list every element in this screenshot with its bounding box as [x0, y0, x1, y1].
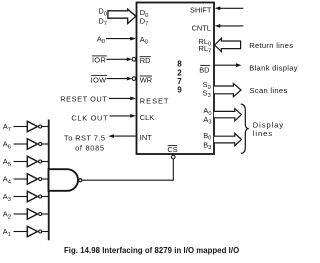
inverter A3: [27, 191, 37, 201]
svg-text:CLK OUT: CLK OUT: [71, 114, 108, 123]
svg-text:of 8085: of 8085: [75, 144, 105, 153]
wire A1: [14, 231, 28, 233]
svg-text:8: 8: [177, 59, 182, 68]
svg-text:A3: A3: [3, 192, 11, 203]
inverter A2: [27, 209, 37, 219]
wire BD output: [214, 64, 238, 66]
svg-text:CLK: CLK: [140, 113, 154, 122]
svg-text:CNTL: CNTL: [192, 23, 211, 32]
svg-text:Fig. 14.98 Interfacing of 8279: Fig. 14.98 Interfacing of 8279 in I/O ma…: [64, 246, 239, 255]
svg-text:D7: D7: [98, 17, 107, 28]
pin WR bubble: [132, 77, 136, 81]
wire INT out of U1: [111, 135, 136, 137]
display B bus arrow out of U1: [214, 133, 242, 145]
wire IOW to U1 WR: [107, 78, 129, 80]
wire A3: [14, 196, 28, 198]
svg-text:RD: RD: [140, 56, 151, 65]
svg-text:SHIFT: SHIFT: [190, 5, 212, 14]
wire IOR to U1 RD: [107, 58, 129, 60]
svg-text:WR: WR: [140, 76, 152, 85]
wire A6: [14, 143, 28, 145]
svg-text:To RST 7.5: To RST 7.5: [64, 133, 105, 142]
svg-text:CS: CS: [167, 145, 177, 154]
NAND output bubble: [79, 179, 82, 182]
scan lines bus arrow out of U1: [214, 83, 241, 96]
NAND gate U2: [49, 169, 79, 191]
svg-text:Scan lines: Scan lines: [250, 86, 288, 95]
svg-text:A7: A7: [3, 122, 11, 133]
inverter A1: [27, 226, 37, 236]
svg-text:INT: INT: [140, 133, 152, 142]
wire CNTL input: [217, 25, 243, 27]
wire A4: [14, 178, 28, 180]
svg-text:A6: A6: [3, 140, 11, 151]
wire A7: [14, 126, 28, 128]
pin RD bubble: [132, 58, 136, 62]
inverter A7: [27, 121, 37, 131]
svg-text:IOR: IOR: [92, 56, 106, 65]
wire A2: [14, 213, 28, 215]
svg-text:A4: A4: [3, 175, 12, 186]
inverter A6: [27, 139, 37, 149]
svg-text:IOW: IOW: [91, 75, 107, 84]
svg-text:A0: A0: [97, 35, 105, 46]
wire CLK OUT to U1: [110, 115, 132, 117]
return lines bus arrow into U1: [215, 38, 241, 51]
IC U1 8279 body: [137, 3, 215, 155]
display A bus arrow out of U1: [214, 109, 241, 121]
data bus arrow into U1: [108, 9, 136, 23]
svg-text:A5: A5: [3, 157, 11, 168]
svg-text:9: 9: [177, 85, 182, 94]
wire SHIFT input: [217, 7, 243, 9]
pin CS bubble: [172, 155, 176, 159]
svg-text:A1: A1: [3, 227, 11, 238]
svg-text:Return lines: Return lines: [249, 41, 293, 50]
wire A0 to U1: [106, 38, 132, 40]
wire A5: [14, 161, 28, 163]
inverter A5: [27, 156, 37, 166]
svg-text:A2: A2: [3, 210, 11, 221]
IC U1 name 8279: [177, 59, 182, 94]
svg-text:Blank display: Blank display: [249, 63, 298, 72]
inverter A4: [27, 174, 37, 184]
svg-text:RESET: RESET: [140, 96, 170, 105]
svg-text:RESET OUT: RESET OUT: [60, 95, 107, 104]
bus wire vertical: [48, 120, 50, 241]
wire CS to NAND output: [172, 159, 174, 180]
svg-text:BD: BD: [199, 65, 209, 74]
wire RESET OUT to U1: [109, 97, 132, 99]
brace display lines: [241, 104, 249, 153]
svg-text:lines: lines: [253, 129, 273, 138]
